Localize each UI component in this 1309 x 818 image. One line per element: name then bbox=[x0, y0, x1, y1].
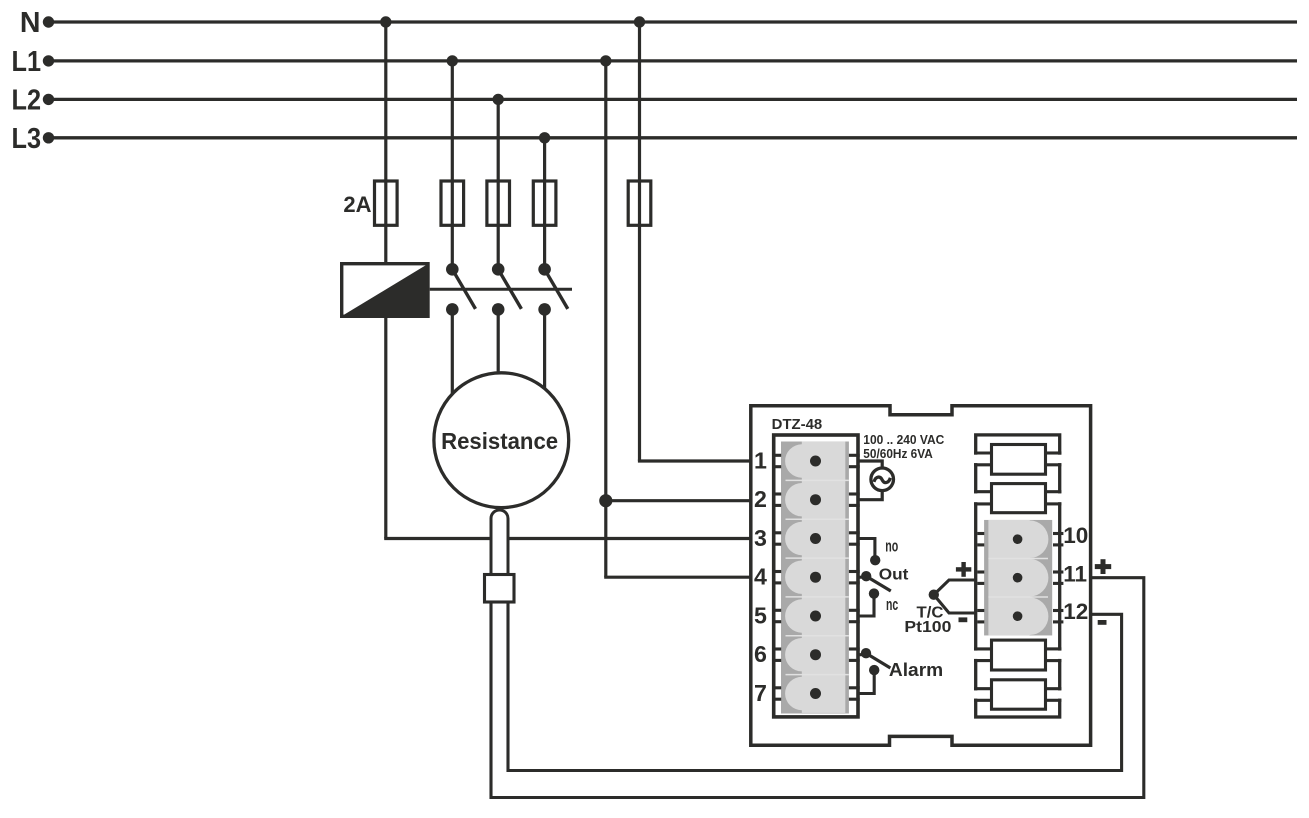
svg-text:L1: L1 bbox=[12, 46, 42, 78]
terminal 7 clamp cell with screw dot bbox=[785, 674, 845, 713]
svg-text:N: N bbox=[20, 7, 41, 39]
svg-text:10: 10 bbox=[1063, 523, 1088, 548]
wire terminal 1 to AC source bbox=[858, 461, 882, 468]
svg-text:2: 2 bbox=[754, 486, 767, 512]
AC source symbol bbox=[871, 468, 894, 491]
contact point no bbox=[870, 555, 880, 565]
cell separator 3 bbox=[786, 557, 849, 559]
wire T/C plus to terminal 11 bbox=[934, 580, 975, 595]
cell separator 1 bbox=[786, 479, 849, 481]
terminal 5 tick marks bbox=[772, 610, 860, 621]
right terminal strip background bbox=[984, 520, 1052, 636]
wire L3 drop to contact 3 bbox=[543, 138, 546, 269]
fuse F5 bbox=[628, 181, 651, 225]
junction node on bus L2 for contact 2 drop bbox=[493, 94, 504, 105]
bus N with start dot and label bbox=[20, 7, 1297, 39]
svg-text:6: 6 bbox=[754, 641, 767, 667]
svg-text:L3: L3 bbox=[12, 123, 42, 155]
terminal 10 clamp cell with screw dot bbox=[988, 520, 1048, 559]
cell separator 2 bbox=[786, 518, 849, 520]
relay slot 2 bbox=[974, 484, 1062, 513]
wire nc contact to terminal 5 bbox=[858, 594, 874, 616]
wire L1 drop to contact 1 bbox=[451, 61, 454, 269]
terminal 2 clamp cell with screw dot bbox=[785, 480, 845, 519]
terminal 3 tick marks bbox=[772, 533, 860, 544]
wire L1 drop to terminal 2 bbox=[606, 499, 753, 502]
terminal 6 tick marks bbox=[772, 649, 860, 660]
terminal 5 clamp cell with screw dot bbox=[785, 597, 845, 636]
wire N drop to fuse F1 and coil bbox=[384, 22, 387, 264]
relay slot 4 bbox=[974, 680, 1062, 709]
terminal 4 clamp cell with screw dot bbox=[785, 558, 845, 597]
relay slot 1 bbox=[974, 445, 1062, 475]
T/C sensor node bbox=[929, 590, 939, 600]
polarity minus outer bbox=[1098, 620, 1107, 625]
cell separator 6 bbox=[786, 674, 849, 676]
svg-text:Alarm: Alarm bbox=[889, 660, 943, 680]
terminal 1 tick marks bbox=[772, 455, 860, 466]
wire terminal 4 to Out common bbox=[858, 576, 866, 579]
contactor contact K1-2 bbox=[492, 263, 522, 316]
svg-text:Out: Out bbox=[879, 566, 909, 583]
wire terminal 2 to AC source bbox=[858, 491, 882, 500]
svg-text:11: 11 bbox=[1063, 561, 1087, 586]
svg-text:nc: nc bbox=[886, 595, 898, 614]
terminal 7 tick marks bbox=[772, 688, 860, 699]
wire contact 1 to heater bbox=[451, 309, 454, 396]
wire contact 3 to heater bbox=[543, 309, 546, 390]
Alarm contact blade bbox=[866, 653, 890, 668]
terminal 12 tick marks bbox=[977, 611, 1063, 622]
wire L1 drop to terminals 2 and 4 bbox=[604, 61, 607, 577]
contactor mechanical linkage bbox=[430, 288, 572, 291]
svg-text:1: 1 bbox=[754, 447, 767, 473]
sensor input module outline bbox=[976, 435, 1060, 717]
junction node terminal 2 branch bbox=[599, 494, 612, 507]
wire contact 2 to heater bbox=[497, 309, 500, 374]
fuse F2 bbox=[441, 181, 464, 225]
svg-text:2A: 2A bbox=[343, 192, 371, 217]
wire T/C minus to terminal 12 bbox=[934, 595, 975, 613]
terminal 3 clamp cell with screw dot bbox=[785, 519, 845, 558]
svg-text:12: 12 bbox=[1063, 599, 1088, 624]
contactor contact K1-3 bbox=[538, 263, 568, 316]
fuse F4 bbox=[533, 181, 556, 225]
svg-text:L2: L2 bbox=[12, 84, 42, 116]
fuse F1 2A bbox=[375, 181, 398, 225]
svg-text:4: 4 bbox=[754, 564, 767, 590]
svg-text:50/60Hz 6VA: 50/60Hz 6VA bbox=[863, 446, 933, 461]
junction node on bus L1 for controller drop bbox=[600, 55, 611, 66]
terminal 1 clamp cell with screw dot bbox=[785, 442, 845, 481]
cell separator 4 bbox=[786, 596, 849, 598]
wire L1 drop to terminal 4 bbox=[604, 576, 752, 579]
terminal 12 clamp cell with screw dot bbox=[988, 597, 1048, 636]
terminal 6 clamp cell with screw dot bbox=[785, 635, 845, 674]
right cell separator 1 bbox=[988, 557, 1048, 559]
polarity minus inner bbox=[959, 617, 968, 622]
contact point nc bbox=[869, 588, 879, 598]
svg-text:3: 3 bbox=[754, 525, 767, 551]
junction node on bus N for controller drop bbox=[634, 16, 645, 27]
relay slot 3 bbox=[974, 640, 1062, 670]
left terminal block outline bbox=[774, 435, 858, 717]
right cell separator 2 bbox=[988, 596, 1048, 598]
wire sensor plus lead (probe to terminal 11) bbox=[491, 578, 1144, 798]
left terminal strip background bbox=[781, 442, 849, 714]
polarity plus outer bbox=[1095, 559, 1111, 574]
contact point Alarm nc bbox=[869, 665, 879, 675]
wire N fuse F5 to terminal 1 bbox=[638, 459, 753, 462]
svg-text:no: no bbox=[885, 537, 898, 556]
fuse F3 bbox=[487, 181, 510, 225]
bus L2 with start dot and label bbox=[12, 84, 1298, 116]
wire sensor minus lead (probe to terminal 12) bbox=[508, 600, 1122, 771]
Out contact blade bbox=[866, 576, 891, 591]
wire N drop to terminal 1 bbox=[638, 22, 641, 461]
cell separator 5 bbox=[786, 635, 849, 637]
contact point Out common bbox=[861, 571, 871, 581]
terminal 10 tick marks bbox=[977, 534, 1063, 545]
controller case outline DTZ-48 bbox=[751, 406, 1091, 746]
probe head junction box bbox=[485, 575, 515, 603]
contactor coil K1 bbox=[342, 264, 428, 317]
contact point Alarm common bbox=[861, 648, 871, 658]
wire coil K1 to terminal 3 row bbox=[384, 316, 752, 538]
polarity plus inner bbox=[956, 562, 971, 577]
terminal 11 tick marks bbox=[977, 572, 1063, 583]
bus L1 with start dot and label bbox=[12, 46, 1298, 78]
svg-text:Pt100: Pt100 bbox=[904, 619, 951, 636]
wire terminal 3 to no contact bbox=[858, 539, 875, 557]
contactor contact K1-1 bbox=[446, 263, 476, 316]
thermocouple probe sheath bbox=[491, 510, 508, 574]
bus L3 with start dot and label bbox=[12, 123, 1298, 155]
wire Alarm contact to terminal 7 bbox=[858, 670, 874, 693]
svg-text:100 .. 240 VAC: 100 .. 240 VAC bbox=[863, 432, 945, 447]
wire L2 drop to contact 2 bbox=[497, 99, 500, 269]
svg-text:DTZ-48: DTZ-48 bbox=[772, 417, 823, 433]
terminal 11 clamp cell with screw dot bbox=[988, 558, 1048, 597]
svg-text:5: 5 bbox=[754, 602, 767, 628]
resistance heater R1 bbox=[434, 373, 569, 508]
svg-text:Resistance: Resistance bbox=[441, 428, 558, 454]
wire terminal 6 to Alarm common bbox=[858, 653, 865, 656]
junction node on bus N for coil drop bbox=[380, 16, 391, 27]
terminal 2 tick marks bbox=[772, 494, 860, 505]
junction node on bus L1 for contact 1 drop bbox=[447, 55, 458, 66]
svg-text:7: 7 bbox=[754, 680, 767, 706]
junction node on bus L3 for contact 3 drop bbox=[539, 132, 550, 143]
terminal 4 tick marks bbox=[772, 572, 860, 583]
